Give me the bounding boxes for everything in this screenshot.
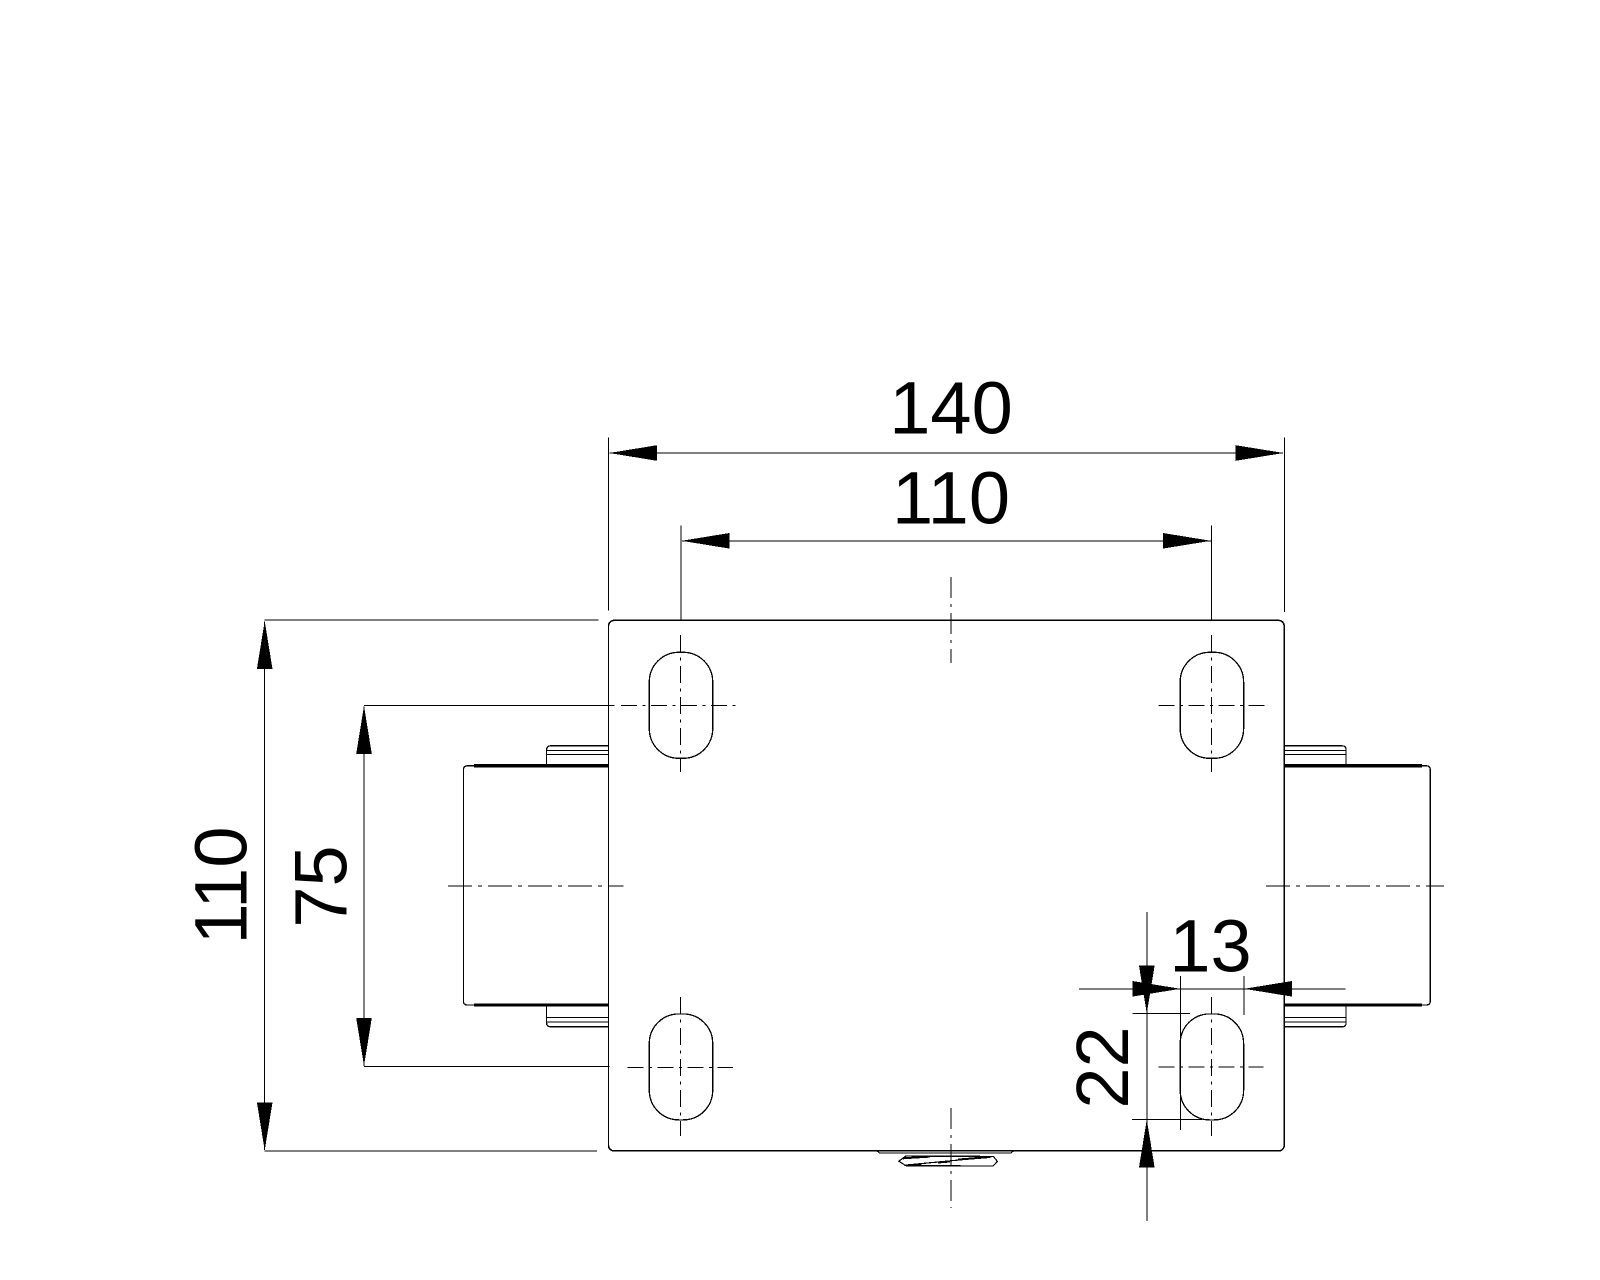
- bolt slot bottom-left: [649, 1014, 712, 1120]
- bolt slot top-left: [649, 652, 712, 758]
- wheel right side outline: [1284, 766, 1430, 1005]
- svg-text:13: 13: [1169, 905, 1251, 988]
- dimension 110 horizontal lines and arrows: [681, 526, 1212, 621]
- slot top-left centerlines: [621, 635, 737, 772]
- bolt slot top-right: [1180, 652, 1243, 758]
- swivel kingpin thread detail: [877, 1151, 1014, 1166]
- svg-text:75: 75: [279, 845, 362, 927]
- axle hub left-top: [547, 746, 609, 766]
- slot bottom-left centerlines: [628, 997, 734, 1136]
- svg-text:22: 22: [1061, 1026, 1144, 1108]
- bolt slot bottom-right: [1180, 1014, 1243, 1120]
- mounting plate outline: [609, 620, 1285, 1151]
- dimension 140 lines and arrows: [608, 437, 1284, 612]
- svg-text:110: 110: [179, 827, 262, 945]
- slot bottom-right centerlines: [1159, 997, 1264, 1136]
- svg-text:110: 110: [892, 457, 1010, 540]
- axle hub left-bottom: [547, 1005, 609, 1027]
- plate vertical centerline bottom segment: [950, 1108, 952, 1208]
- axle hub right-top: [1284, 746, 1346, 766]
- slot top-right centerlines: [1159, 635, 1265, 772]
- dimension 13 lines and arrows: [1079, 976, 1346, 1130]
- wheel axle centerline right: [1266, 885, 1444, 887]
- dimension 75 lines and arrows: [356, 705, 614, 1066]
- dimension 22 lines and arrows: [1132, 912, 1202, 1221]
- svg-text:140: 140: [889, 367, 1012, 450]
- wheel left side outline: [463, 766, 608, 1005]
- axle hub right-bottom: [1284, 1005, 1346, 1027]
- wheel axle centerline left: [448, 885, 624, 887]
- plate vertical centerline top segment: [950, 577, 952, 663]
- dimension 110 vertical lines and arrows: [257, 620, 599, 1151]
